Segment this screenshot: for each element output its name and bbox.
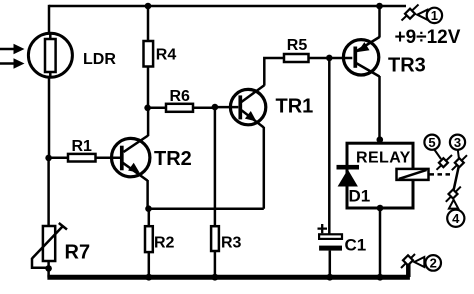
svg-text:R2: R2 — [154, 235, 175, 252]
wire LDR bottom to node A — [48, 78, 51, 159]
svg-text:D1: D1 — [349, 187, 371, 206]
svg-text:R7: R7 — [65, 242, 91, 264]
wire node E down to C1 — [328, 58, 331, 234]
diode D1 — [337, 165, 360, 187]
node top rail / R4 — [145, 3, 152, 10]
wire R5 right to node E — [309, 57, 330, 60]
svg-text:TR2: TR2 — [154, 148, 192, 170]
svg-text:C1: C1 — [345, 236, 367, 255]
photoresistor LDR — [0, 33, 72, 77]
transistor TR2 — [112, 136, 150, 181]
wire bottom ground rail — [47, 275, 410, 280]
terminal 2 — [401, 254, 441, 277]
resistor R5 — [284, 54, 309, 62]
terminal 1 — [402, 5, 443, 24]
dashed link coil to switch — [430, 173, 453, 176]
svg-text:R5: R5 — [287, 37, 308, 54]
resistor R3 — [211, 226, 219, 251]
resistor R4 — [144, 41, 154, 67]
wire TR1 base — [215, 106, 238, 109]
svg-text:RELAY: RELAY — [356, 149, 411, 166]
wire R4 bottom to node B — [147, 67, 150, 108]
wire R4 top — [147, 6, 150, 41]
wire TR3 base — [329, 57, 352, 60]
node relay top — [377, 136, 384, 143]
node E (R5/TR3 base/C1) — [326, 55, 333, 62]
node C (R6/TR1 base/R3) — [212, 104, 219, 111]
svg-text:4: 4 — [452, 211, 460, 226]
node top rail / TR3 emitter — [376, 3, 383, 10]
wire LDR top stub — [48, 5, 51, 35]
resistor R1 — [68, 154, 96, 162]
node A (LDR/R1/R7) — [45, 155, 52, 162]
wire TR2 emitter down to node D — [146, 180, 149, 209]
trimmer R7 — [32, 223, 67, 268]
transistor TR3 (PNP) — [343, 37, 379, 77]
svg-text:5: 5 — [428, 135, 435, 150]
wire relay bottom to rail — [379, 208, 382, 277]
node rail R3 — [212, 274, 219, 281]
wire TR1 emitter vertical — [263, 127, 266, 209]
resistor R6 — [166, 104, 193, 112]
wire R7 bottom — [47, 261, 50, 278]
svg-text:+9÷12V: +9÷12V — [395, 27, 461, 48]
wire TR3 emitter up to rail — [378, 6, 381, 38]
resistor R2 — [145, 226, 153, 252]
relay box — [347, 143, 413, 208]
transistor TR1 — [230, 85, 265, 127]
svg-text:3: 3 — [454, 135, 461, 150]
wire R1 left — [49, 156, 68, 159]
svg-text:1: 1 — [431, 8, 438, 23]
node R7 wiper junction — [45, 265, 52, 272]
wire R6 left — [148, 107, 166, 110]
svg-text:R3: R3 — [221, 234, 242, 251]
wire top supply rail — [49, 5, 406, 8]
wire emitter bus D to TR1 emitter corner — [149, 207, 264, 210]
svg-text:TR3: TR3 — [388, 55, 426, 77]
svg-text:TR1: TR1 — [276, 96, 314, 118]
wire TR1 collector to R5 — [264, 58, 284, 86]
node D (TR2 emitter/R2/bus) — [145, 205, 152, 212]
wire R6 right to node C — [193, 107, 215, 110]
wire R2 top — [148, 209, 151, 227]
node rail R2 — [145, 274, 152, 281]
wire R7 top from node A — [47, 158, 50, 226]
node rail relay — [377, 274, 384, 281]
wire R3 bottom — [214, 251, 217, 277]
node rail C1 — [326, 274, 333, 281]
svg-text:2: 2 — [430, 256, 437, 271]
terminal 3 — [450, 135, 467, 171]
node relay bottom — [377, 205, 384, 212]
switch contact lower — [446, 187, 461, 202]
wire R1 right to TR2 base — [96, 156, 122, 159]
capacitor C1 — [318, 224, 343, 251]
terminal 5 — [424, 135, 452, 170]
svg-text:LDR: LDR — [83, 51, 116, 68]
terminal 4 — [447, 200, 464, 227]
svg-text:R6: R6 — [170, 88, 191, 105]
relay coil — [397, 169, 429, 180]
node B (R4/R6/TR2 collector) — [144, 105, 151, 112]
svg-text:R1: R1 — [72, 138, 93, 155]
switch arm — [454, 167, 459, 190]
wire node C down to R3 — [214, 107, 217, 226]
wire TR3 collector down to relay — [378, 76, 381, 143]
wire C1 bottom — [329, 251, 332, 277]
wire R2 bottom — [148, 252, 151, 277]
wire TR2 collector up to node B — [147, 108, 150, 136]
svg-text:R4: R4 — [156, 47, 177, 64]
